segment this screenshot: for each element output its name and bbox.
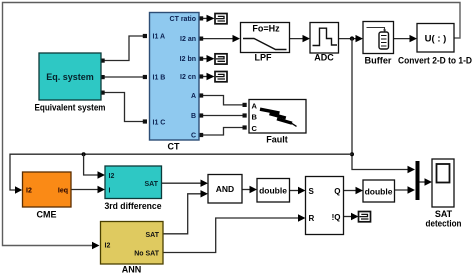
arrowhead into 3rd difference I (98, 186, 106, 193)
block LPF (241, 23, 290, 53)
wire CT I2 bn to terminator T2 (201, 58, 208, 60)
svg-text:No SAT: No SAT (134, 251, 159, 258)
terminator T2 (215, 54, 227, 64)
block CME (23, 172, 72, 207)
svg-text:A: A (252, 102, 258, 111)
svg-text:I2: I2 (109, 173, 115, 180)
terminator T1 (215, 14, 227, 24)
arrowhead into double2 (356, 187, 364, 194)
svg-text:double: double (259, 186, 287, 196)
wire Eq.system port1 to CT I1 A (102, 36, 145, 61)
svg-text:double: double (365, 187, 393, 197)
svg-text:B: B (191, 113, 196, 120)
svg-text:!Q: !Q (332, 213, 341, 222)
port square CT ratio (199, 16, 203, 20)
block Eq. system (39, 53, 101, 100)
arrowhead into T3 (207, 73, 215, 80)
arrowhead into AND input2 (201, 190, 209, 197)
arrowhead into mux input1 (408, 166, 416, 173)
block ANN (101, 222, 164, 265)
port square CT I1B (143, 75, 147, 79)
wire CT I2 an to LPF (201, 38, 234, 40)
wire branch down from ADC output to mux input 1 (352, 39, 409, 170)
svg-text:CT: CT (168, 142, 180, 152)
block Fault (249, 100, 306, 134)
svg-text:S: S (309, 187, 315, 196)
arrowhead into ANN I2 (92, 242, 100, 249)
svg-text:B: B (252, 113, 258, 122)
wire ANN No SAT to R (163, 218, 299, 253)
junction dot ADC-Buffer branch (350, 36, 354, 40)
block double1 (257, 179, 290, 203)
arrowhead into scope (425, 178, 433, 185)
block ADC (310, 23, 339, 54)
svg-text:U( : ): U( : ) (425, 34, 447, 45)
arrowhead into T2 (207, 55, 215, 62)
svg-text:I1 C: I1 C (153, 120, 166, 127)
svg-text:Ieq: Ieq (58, 188, 68, 195)
svg-text:I1 B: I1 B (153, 75, 166, 82)
svg-text:Buffer: Buffer (365, 56, 393, 66)
mux bar (416, 161, 420, 200)
arrowhead into Convert (410, 35, 418, 42)
block CT (150, 13, 200, 141)
svg-text:I: I (109, 188, 111, 195)
port square CT A (199, 93, 203, 97)
svg-text:SAT: SAT (145, 181, 159, 188)
terminator T4 (359, 212, 371, 222)
svg-text:SAT: SAT (435, 209, 453, 219)
port square CT B (199, 113, 203, 117)
arrowhead into 3rd difference I2 (98, 171, 106, 178)
wire CT C to Fault C (201, 128, 243, 136)
arrowhead into ADC (303, 35, 311, 42)
wire I2 feed line left to CME (10, 154, 352, 190)
arrowhead into mux input2 (408, 186, 416, 193)
arrowhead into CME I2 (15, 186, 22, 193)
arrowhead into T4 (351, 213, 359, 220)
svg-text:A: A (191, 93, 196, 100)
svg-text:Fault: Fault (266, 135, 288, 145)
terminator T3 (215, 72, 227, 82)
port square CT I2an (199, 37, 203, 41)
svg-text:C: C (252, 124, 258, 133)
svg-text:Q: Q (334, 187, 340, 196)
port square Fault B (243, 113, 247, 117)
wire Eq.system port2 to CT I1 B (102, 76, 145, 78)
block double2 (363, 180, 395, 202)
svg-text:R: R (309, 214, 315, 223)
port square Fault C (243, 125, 247, 129)
wire CT I2 cn to terminator T3 (201, 76, 208, 78)
wire LPF to ADC (290, 38, 305, 40)
svg-text:ADC: ADC (314, 53, 334, 63)
wire CT A to Fault A (201, 96, 243, 105)
wire Buffer to Convert (394, 38, 412, 40)
port square CT I2cn (199, 74, 203, 78)
block scope SAT detection (432, 159, 454, 207)
arrowhead into Buffer (356, 35, 364, 42)
block Convert 2-D to 1-D (417, 24, 454, 53)
svg-text:SAT: SAT (146, 232, 160, 239)
arrowhead into AND input1 (201, 180, 209, 187)
port square CT C (199, 133, 203, 137)
wire double2 to mux input2 (395, 189, 410, 191)
svg-text:I2: I2 (105, 243, 111, 250)
port square CT I2bn (199, 57, 203, 61)
wire ADC to Buffer (339, 38, 357, 40)
wire branch down to 3rd difference I2 (84, 154, 98, 175)
svg-text:I2: I2 (26, 188, 32, 195)
svg-text:ANN: ANN (122, 265, 142, 275)
port square Fault A (243, 103, 247, 107)
wire 3rd difference SAT to AND input1 (162, 182, 202, 184)
svg-text:detection: detection (426, 219, 462, 229)
port square CT I1C (143, 119, 147, 123)
wire !Q to terminator T4 (344, 216, 352, 218)
block Buffer (363, 22, 394, 54)
wire CME Ieq to 3rd difference I (71, 189, 98, 191)
svg-text:CT ratio: CT ratio (170, 16, 196, 23)
port square Eq out3 (101, 91, 105, 95)
svg-text:AND: AND (216, 184, 234, 194)
arrowhead into LPF (233, 35, 241, 42)
wire CT ratio to terminator T1 (201, 17, 208, 19)
arrowhead into T1 (207, 15, 215, 22)
wire Eq.system port3 to CT I1 C (102, 93, 145, 122)
svg-text:I2 bn: I2 bn (180, 56, 196, 63)
svg-text:LPF: LPF (255, 53, 273, 63)
svg-text:CME: CME (37, 210, 57, 220)
svg-text:3rd difference: 3rd difference (105, 201, 162, 211)
svg-text:I1 A: I1 A (153, 34, 166, 41)
wire ANN SAT to AND input2 (163, 194, 201, 234)
svg-text:C: C (191, 133, 196, 140)
port square Eq out2 (101, 75, 105, 79)
svg-text:Eq. system: Eq. system (46, 72, 94, 82)
wire mux output to scope (420, 181, 427, 183)
svg-text:I2 cn: I2 cn (180, 74, 196, 81)
wire double1 to S (290, 190, 299, 192)
svg-text:Equivalent system: Equivalent system (35, 103, 106, 113)
junction dot at feed line split (350, 152, 354, 156)
svg-text:Fo=Hz: Fo=Hz (252, 24, 280, 34)
block SR flip-flop (306, 177, 344, 235)
svg-text:I2 an: I2 an (180, 36, 196, 43)
wire CT B to Fault B (201, 115, 243, 117)
wire Q to double2 (344, 190, 357, 192)
port square Eq out1 (101, 59, 105, 63)
arrowhead into S (298, 187, 306, 194)
svg-text:Convert 2-D to 1-D: Convert 2-D to 1-D (398, 56, 472, 66)
junction dot branch to 3rd difference (82, 152, 86, 156)
port square CT I1A (143, 34, 147, 38)
arrowhead into double1 (250, 186, 258, 193)
block AND (208, 175, 242, 204)
block 3rd difference (105, 166, 162, 199)
arrowhead into R (298, 214, 306, 221)
wire AND to double1 (242, 189, 250, 191)
